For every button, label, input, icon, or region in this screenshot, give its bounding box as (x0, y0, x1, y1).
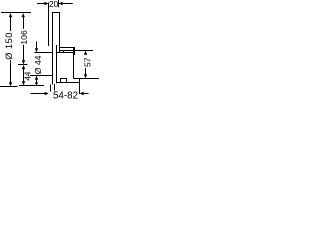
node bottom line (57, 82, 80, 84)
wire dim line Ø150 lower (10, 60, 12, 83)
node arrow 57 bottom (84, 74, 87, 78)
svg-text:54-82: 54-82 (53, 90, 78, 100)
node arrow Ø150 bottom (9, 82, 12, 86)
node housing top line (57, 52, 75, 54)
wire front face line (48, 3, 50, 47)
node arrow 20 right (59, 2, 63, 5)
node arrow 20 left (44, 2, 48, 5)
node plate outline (53, 13, 60, 85)
wire dim line 57 (85, 68, 87, 74)
node arrow Ø44 bottom (35, 76, 38, 80)
node arrow 54-82 right (80, 92, 84, 95)
node arrow Ø150 top (9, 13, 12, 17)
node bottom extension line left (0, 86, 18, 88)
wire dim line Ø44 bottom stub (36, 80, 38, 86)
wire 54-82 left shaft (31, 93, 45, 95)
node arrow Ø44 bottom second (35, 80, 38, 83)
wire boss right thick bar (73, 47, 75, 55)
node arrow 44 down (22, 81, 25, 85)
node handle box (61, 79, 67, 83)
node arrow 57 top (84, 51, 87, 55)
node arrow 106 bottom (22, 60, 25, 64)
wire 54-82 right shaft (84, 93, 89, 95)
wire dim line 106 upper (23, 17, 25, 29)
wire body left line (56, 45, 58, 84)
node arrow 106 top (22, 13, 25, 17)
node extension line low (19, 85, 44, 87)
svg-text:106: 106 (19, 30, 29, 45)
node knob bottom line (30, 75, 53, 77)
node 57 top extension line (75, 50, 93, 52)
wire dim line Ø44 top stub (36, 42, 38, 49)
node top extension line (1, 12, 31, 14)
wire step stub (63, 51, 65, 53)
wire dim line 106 lower (23, 45, 25, 61)
wire dim line Ø150 upper (10, 17, 12, 31)
node knob top line (34, 52, 52, 54)
svg-text:44: 44 (24, 71, 33, 80)
svg-text:57: 57 (83, 57, 93, 67)
wire right ext drop (79, 79, 81, 95)
wire housing right line (73, 55, 75, 79)
node lower right extension line (74, 78, 100, 80)
node arrow 54-82 left (45, 92, 49, 95)
wire dim line 44 (23, 69, 25, 81)
node arrow Ø44 top (35, 48, 38, 52)
wire 20 right tick (58, 0, 60, 7)
wire plate back tick (54, 84, 56, 91)
wire plate front lower tick (50, 85, 52, 92)
node extension line mid (18, 64, 28, 66)
wire 20 left shaft (37, 3, 44, 5)
node boss rectangle (60, 48, 74, 53)
node arrow 44 up (22, 65, 25, 69)
wire 20 right shaft (63, 3, 73, 5)
svg-text:Ø 150: Ø 150 (4, 32, 14, 60)
svg-text:20: 20 (49, 0, 59, 9)
svg-text:Ø 44: Ø 44 (33, 55, 43, 74)
